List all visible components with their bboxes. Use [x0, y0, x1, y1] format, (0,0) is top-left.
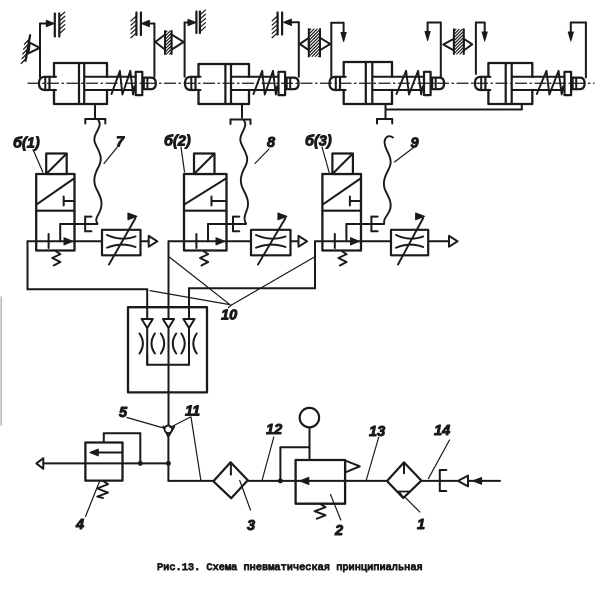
flow passage б(3)	[346, 224, 384, 241]
svg-text:5: 5	[119, 405, 128, 421]
stop bars right of C2	[272, 13, 282, 38]
wire riser C1 rod-right	[141, 20, 154, 77]
regulator 2 body	[296, 460, 346, 504]
leader 1	[406, 498, 420, 512]
cylinder body 3	[330, 62, 445, 104]
wire flow line б(1)	[28, 240, 149, 242]
valve body б(1)	[36, 174, 74, 251]
svg-text:б(2): б(2)	[164, 134, 191, 150]
leader б(2)	[181, 147, 185, 172]
exhaust triangle б(1)	[149, 236, 158, 247]
solenoid box б(2)	[194, 154, 215, 175]
solenoid box б(3)	[332, 154, 353, 175]
relief valve 4 body	[85, 443, 122, 481]
hose fitting б(2)	[233, 217, 239, 232]
leader 13	[366, 438, 378, 481]
filter 1	[387, 462, 421, 498]
port tick б(2)	[195, 234, 197, 248]
cylinder C2 details	[195, 64, 279, 104]
svg-text:4: 4	[75, 517, 84, 533]
label б(3)	[305, 134, 332, 150]
label 4	[75, 517, 84, 533]
wire filter3 to regulator	[248, 480, 296, 482]
port tick б(1)	[48, 234, 50, 248]
leader б(3)	[322, 147, 329, 173]
cylinder C1 details	[49, 63, 136, 104]
gauge stem	[309, 427, 311, 460]
wire riser C2 rod-left	[185, 19, 196, 77]
wire riser C2 rod-right	[283, 19, 298, 77]
pilot tick б(2)	[212, 197, 227, 206]
label 12	[266, 422, 282, 438]
label 10	[221, 308, 237, 324]
spring б(3)	[338, 252, 346, 266]
regulator 2 arrow	[300, 477, 309, 484]
wire manifold	[147, 354, 189, 365]
port line C2	[241, 104, 243, 118]
stop bars left of C1	[55, 12, 65, 36]
proportional diagonal б(2)	[185, 179, 226, 205]
check valve 5	[163, 426, 174, 437]
label б(1)	[13, 136, 40, 152]
bypass loop 2	[280, 447, 309, 481]
wire valve3 output bus	[189, 241, 315, 319]
centerline axis	[28, 82, 594, 84]
svg-text:б(3): б(3)	[305, 134, 332, 150]
label 2	[334, 523, 343, 539]
svg-text:14: 14	[434, 423, 450, 439]
svg-text:7: 7	[116, 135, 125, 151]
valve body б(3)	[322, 174, 361, 251]
check valve 10c	[181, 319, 196, 365]
hose 8	[240, 121, 248, 224]
bypass loop 4	[104, 433, 141, 462]
leader 14	[428, 440, 449, 479]
valve block housing	[128, 307, 207, 392]
hose fitting C1	[85, 119, 105, 124]
port line C1	[94, 104, 96, 118]
label 14	[434, 423, 450, 439]
proportional diagonal б(1)	[37, 179, 74, 205]
leader 11a	[170, 417, 191, 428]
label 9	[411, 136, 419, 152]
leader 10b	[169, 257, 230, 305]
wire riser C4 rod-right	[568, 23, 586, 78]
port tick б(3)	[334, 234, 336, 248]
stop bars right of C1	[131, 13, 141, 38]
leader 8	[255, 149, 269, 164]
flow arrow б(1)	[64, 238, 73, 245]
quick coupling 14	[440, 470, 447, 491]
wire flow line б(2)	[169, 240, 299, 242]
hose 7	[94, 121, 101, 224]
svg-text:12: 12	[266, 422, 282, 438]
cylinder C4 details	[485, 63, 565, 104]
svg-text:3: 3	[247, 518, 255, 534]
hose fitting б(1)	[85, 217, 91, 232]
svg-text:1: 1	[417, 517, 425, 533]
solenoid box б(1)	[46, 154, 66, 175]
pressure gauge	[300, 408, 319, 427]
wire to junction	[167, 437, 169, 464]
inlet triangle	[458, 476, 468, 487]
leader 10a	[150, 291, 229, 305]
caption	[157, 562, 423, 574]
label 3	[247, 518, 255, 534]
svg-text:б(1): б(1)	[13, 136, 40, 152]
exhaust triangle б(2)	[299, 236, 308, 247]
regulator 2 flag	[345, 461, 360, 473]
fixed wall with roller left of C1	[21, 35, 39, 63]
leader 11b	[191, 417, 201, 480]
wire riser C3 rod-right	[425, 23, 441, 77]
pilot tick б(1)	[64, 197, 75, 206]
wire filter1 to inlet	[421, 480, 457, 482]
hose fitting C2	[231, 120, 251, 125]
leader 10 stem	[229, 305, 232, 308]
label 13	[369, 424, 385, 440]
hose fitting C3	[377, 119, 392, 124]
wire riser C3 rod-left	[331, 23, 346, 77]
spring 2	[315, 504, 326, 519]
leader 3	[240, 481, 251, 511]
throttle valve б(2)	[251, 213, 291, 265]
svg-text:Рис.13. Схема пневматическая п: Рис.13. Схема пневматическая принципиаль…	[157, 562, 423, 574]
flow passage б(2)	[208, 224, 246, 241]
wire flow line б(3)	[315, 240, 449, 242]
throttle valve б(3)	[391, 213, 428, 265]
label 5	[119, 405, 128, 421]
svg-text:13: 13	[369, 424, 385, 440]
wire block output	[168, 365, 170, 426]
flow arrow б(3)	[351, 238, 360, 245]
wire riser C1 rod-left	[40, 20, 54, 77]
wire junction to filter 3	[168, 463, 213, 481]
leader 2	[331, 495, 341, 521]
junction dot B	[166, 461, 171, 466]
inlet arrow line	[468, 478, 500, 485]
junction dot A	[138, 461, 143, 466]
cylinder C3 details	[340, 62, 425, 104]
check valve 10a	[140, 319, 155, 365]
wire valve2 output bus	[168, 241, 170, 319]
hose 9	[384, 136, 393, 223]
leader 9	[395, 148, 414, 162]
cylinder body 4	[475, 63, 585, 104]
wire regulator to filter 1	[345, 480, 387, 482]
spring б(1)	[52, 252, 60, 266]
svg-text:11: 11	[185, 404, 200, 420]
port line C3	[385, 104, 387, 118]
stop block between C1 and C2	[155, 31, 183, 54]
stop bars left of C2	[196, 10, 205, 33]
label 8	[267, 135, 276, 151]
exhaust triangle б(3)	[449, 236, 458, 247]
exhaust triangle left	[36, 458, 43, 469]
leader 10c	[232, 257, 315, 305]
wire through regulator	[296, 480, 346, 482]
spring 4	[97, 481, 108, 498]
leader 7	[104, 148, 117, 164]
wire C4 port to C3 port	[386, 104, 522, 110]
label 11	[185, 404, 200, 420]
leader 5	[127, 418, 164, 429]
throttle valve б(1)	[102, 213, 141, 265]
hose fitting б(3)	[371, 217, 377, 232]
svg-text:8: 8	[267, 135, 276, 151]
leader б(1)	[33, 150, 43, 173]
label б(2)	[164, 134, 191, 150]
proportional diagonal б(3)	[323, 179, 360, 205]
cylinder body 2	[185, 64, 299, 104]
wire left branch	[43, 462, 168, 464]
wire riser C4 rod-left	[476, 23, 487, 75]
leader 4	[86, 482, 100, 517]
label 1	[417, 517, 425, 533]
label 7	[116, 135, 125, 151]
wire	[0, 297, 2, 425]
svg-text:10: 10	[221, 308, 237, 324]
wire valve1 output bus	[28, 241, 148, 319]
relief valve 4 arrow	[90, 449, 123, 456]
junction dot C	[278, 478, 283, 483]
flow arrow б(2)	[216, 238, 225, 245]
stop block between C3 and C4	[443, 29, 472, 54]
flow passage б(1)	[60, 224, 97, 241]
valve body б(2)	[184, 174, 227, 251]
stop block between C2 and C3	[300, 29, 330, 57]
cylinder body 1	[39, 63, 156, 104]
spring б(2)	[200, 252, 208, 266]
filter 3	[213, 462, 247, 498]
leader 12	[262, 437, 274, 480]
svg-text:2: 2	[334, 523, 343, 539]
check valve 10b	[161, 319, 176, 365]
pilot tick б(3)	[350, 197, 361, 206]
